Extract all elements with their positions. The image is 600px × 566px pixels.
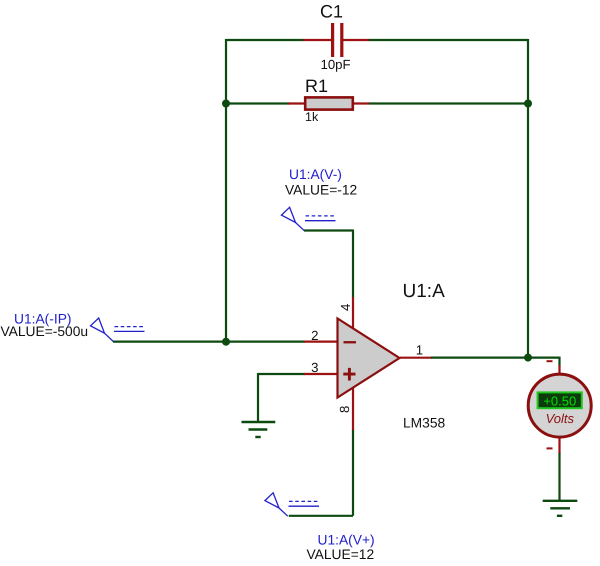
- ground at pin3: [242, 422, 276, 437]
- voltmeter minus terminal mark: [547, 447, 553, 449]
- generator G3 (V+): [265, 493, 319, 516]
- wire top right green: [369, 39, 528, 41]
- wire pin1 output stub: [400, 357, 432, 359]
- wire pin2 stub: [304, 341, 338, 343]
- op-amp minus input mark: [344, 341, 357, 343]
- ground at voltmeter: [543, 501, 578, 516]
- svg-text:VALUE=12: VALUE=12: [307, 547, 375, 562]
- svg-text:3: 3: [311, 360, 318, 375]
- wire R1 left pin: [288, 102, 305, 104]
- wire top left green: [226, 39, 303, 41]
- svg-text:1k: 1k: [305, 110, 319, 124]
- wire pin3 stub: [304, 373, 338, 375]
- svg-text:1: 1: [416, 342, 423, 357]
- wire Vminus row green: [304, 230, 353, 299]
- voltmeter display: [538, 392, 582, 408]
- wire R1 row left green: [226, 102, 289, 104]
- generator G2 (V-): [281, 207, 335, 230]
- node junction R1 left: [222, 100, 230, 108]
- svg-text:Volts: Volts: [546, 411, 575, 426]
- svg-text:4: 4: [338, 304, 353, 311]
- svg-text:U1:A: U1:A: [403, 281, 446, 302]
- wire pin8 stub: [352, 387, 354, 431]
- op-amp plus input mark: [343, 368, 355, 381]
- wire left vertical: [225, 39, 227, 343]
- wire C1 left pin: [303, 39, 332, 41]
- node junction input: [222, 338, 230, 346]
- resistor R1: [305, 97, 353, 109]
- generator G1 input (-IP): [91, 318, 145, 342]
- node junction R1 right: [524, 100, 532, 108]
- op-amp U1 body: [338, 319, 400, 398]
- wire right vertical: [527, 39, 529, 358]
- node junction output: [524, 354, 532, 362]
- wire output row green: [431, 357, 560, 366]
- svg-text:U1:A(V+): U1:A(V+): [318, 533, 375, 548]
- voltmeter plus terminal mark: [547, 360, 553, 362]
- svg-text:2: 2: [311, 328, 318, 343]
- svg-text:VALUE=-12: VALUE=-12: [285, 183, 357, 198]
- svg-text:U1:A(V-): U1:A(V-): [289, 167, 342, 182]
- wire voltmeter bottom pin: [558, 437, 560, 454]
- wire C1 right pin: [343, 39, 370, 41]
- svg-text:+0.50: +0.50: [543, 394, 576, 409]
- wire R1 row right green: [369, 102, 528, 104]
- svg-text:10pF: 10pF: [321, 57, 351, 72]
- wire voltmeter top pin: [558, 365, 560, 374]
- wire input row green: [113, 341, 305, 343]
- svg-text:8: 8: [337, 406, 352, 413]
- voltmeter body: [528, 374, 591, 437]
- svg-text:C1: C1: [320, 2, 343, 22]
- svg-text:LM358: LM358: [403, 416, 446, 431]
- wire Vplus row green: [289, 430, 353, 516]
- wire pin4 stub: [352, 297, 354, 329]
- svg-text:R1: R1: [305, 76, 328, 96]
- svg-text:VALUE=-500u: VALUE=-500u: [1, 324, 89, 339]
- wire pin3 ground row green: [258, 373, 305, 422]
- capacitor C1: [331, 23, 343, 57]
- wire voltmeter to ground green: [558, 453, 560, 501]
- wire R1 right pin: [353, 102, 370, 104]
